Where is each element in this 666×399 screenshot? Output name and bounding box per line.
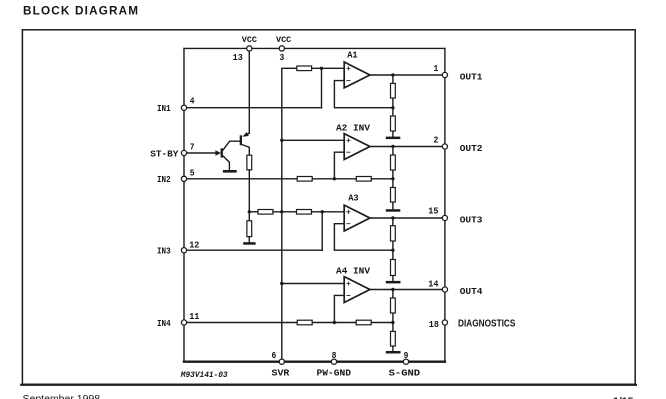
wire A2 + input: [282, 139, 345, 141]
svg-text:12: 12: [189, 241, 199, 251]
pin 4 IN1: [181, 105, 186, 110]
op-amp A4: [344, 277, 370, 303]
wire IN3 from pin 12: [184, 249, 322, 251]
svg-text:VCC: VCC: [242, 36, 257, 45]
resistor A4 divider lower: [391, 331, 396, 346]
capacitor A3 divider ground bar: [386, 281, 401, 284]
wire A1 - feedback: [334, 81, 393, 108]
node mute junction: [248, 210, 251, 213]
node A4 feedback node: [391, 321, 394, 324]
svg-text:S-GND: S-GND: [389, 367, 421, 378]
node bias rail to A2 +: [280, 139, 283, 142]
wire A2 feedback resistor to node: [371, 178, 393, 180]
node A1 + chain junction: [320, 67, 323, 70]
pin 11 IN4: [181, 320, 186, 325]
svg-text:14: 14: [428, 280, 439, 290]
wire A3 output: [370, 217, 445, 219]
resistor A2 divider lower: [391, 188, 396, 203]
resistor mute to ground: [247, 221, 252, 237]
svg-text:7: 7: [190, 143, 195, 153]
svg-text:6: 6: [272, 351, 277, 361]
wire A1 output: [370, 74, 445, 76]
svg-text:9: 9: [404, 351, 409, 361]
resistor IN2 input: [297, 177, 312, 182]
wire A4 feedback resistor to node: [371, 322, 393, 324]
svg-text:OUT4: OUT4: [460, 286, 483, 297]
svg-text:13: 13: [233, 53, 243, 63]
wire A3 feedback divider column: [392, 218, 394, 281]
wire inner box left edge: [183, 48, 185, 361]
node A2 feedback node: [391, 177, 394, 180]
wire IN4 resistor to A4 - node: [312, 322, 356, 324]
svg-text:A2 INV: A2 INV: [336, 122, 370, 133]
svg-text:8: 8: [332, 351, 337, 361]
wire A4 output: [370, 289, 445, 291]
wire IN1 riser: [321, 68, 323, 107]
svg-text:SVR: SVR: [272, 367, 290, 378]
resistor A3 divider upper: [391, 226, 396, 241]
capacitor A1 divider ground bar: [386, 137, 401, 140]
svg-text:M93V141-03: M93V141-03: [180, 371, 228, 380]
wire top rail: [184, 47, 445, 49]
wire inner box right rail: [444, 48, 446, 361]
resistor A2 feedback: [356, 177, 371, 182]
svg-text:15: 15: [428, 206, 438, 216]
resistor A4 divider upper: [391, 298, 396, 313]
svg-text:VCC: VCC: [276, 36, 291, 45]
transistor Q2: [240, 132, 250, 155]
wire IN2 resistor to A2 - node: [312, 178, 356, 180]
svg-text:A1: A1: [347, 49, 358, 60]
node A1 output junction: [391, 73, 394, 76]
wire mute resistor to ground: [248, 237, 250, 243]
op-amp A2: [344, 134, 370, 160]
pin 5 IN2: [181, 176, 186, 181]
op-amp A3: [344, 205, 370, 231]
wire A2 - input riser: [334, 152, 344, 179]
resistor IN4 input: [297, 320, 312, 325]
svg-text:OUT2: OUT2: [460, 143, 483, 154]
pin 6 SVR: [279, 359, 284, 364]
transistor Q1: [215, 141, 240, 170]
wire IN1 from pin 4: [184, 107, 322, 109]
pin 15 OUT3: [442, 215, 447, 220]
wire A2 output: [370, 146, 445, 148]
wire A3 - feedback: [334, 224, 393, 251]
wire ST-BY to Q1 base: [184, 152, 216, 154]
wire A4 - input riser: [334, 295, 344, 322]
pin 8 PW-GND: [331, 359, 336, 364]
pin 2 OUT2: [442, 144, 447, 149]
svg-text:3: 3: [280, 53, 285, 63]
svg-text:1: 1: [434, 64, 439, 74]
wire chain middle: [273, 211, 297, 213]
resistor A1 input: [297, 66, 312, 71]
wire A4 + input: [282, 283, 345, 285]
op-amp A1: [344, 62, 370, 88]
svg-text:IN3: IN3: [157, 246, 171, 257]
svg-text:11: 11: [189, 312, 200, 322]
svg-text:5: 5: [190, 169, 195, 179]
svg-text:IN1: IN1: [157, 103, 171, 114]
node bias rail chain junction: [280, 210, 283, 213]
wire chain to A3 + input: [312, 211, 345, 213]
wire Q2 resistor to mute node: [248, 170, 250, 221]
capacitor A4 divider ground bar: [386, 351, 401, 354]
wire IN4 from pin 11: [184, 322, 297, 324]
svg-text:ST-BY: ST-BY: [150, 148, 178, 159]
ground Q1 emitter: [223, 170, 237, 173]
svg-text:A4 INV: A4 INV: [336, 266, 370, 277]
resistor chain right: [297, 210, 312, 215]
resistor A3 divider lower: [391, 260, 396, 276]
svg-text:IN4: IN4: [157, 318, 171, 329]
node A3 + chain junction: [321, 210, 324, 213]
node bias rail to A4 +: [280, 282, 283, 285]
pin 14 OUT4: [442, 287, 447, 292]
resistor Q2 collector: [247, 155, 252, 170]
pin 18 DIAGNOSTICS: [442, 320, 447, 325]
node A4 output junction: [391, 288, 394, 291]
node A2 - input junction: [333, 177, 336, 180]
wire bottom rail: [184, 361, 445, 363]
node A3 feedback node: [391, 249, 394, 252]
svg-text:OUT1: OUT1: [460, 71, 483, 82]
wire VCC pin13 column down to Q2 emitter: [248, 48, 250, 133]
pin 7 ST-BY: [181, 150, 186, 155]
wire A2 feedback divider column: [392, 147, 394, 210]
node A3 output junction: [391, 216, 394, 219]
pin 1 OUT1: [442, 72, 447, 77]
svg-text:OUT3: OUT3: [460, 214, 483, 225]
resistor A1 divider upper: [391, 83, 396, 98]
wire IN2 from pin 5: [184, 178, 297, 180]
svg-text:A3: A3: [348, 192, 359, 203]
resistor chain left: [258, 210, 273, 215]
node A1 feedback node: [391, 106, 394, 109]
wire IN3 riser: [321, 212, 323, 250]
wire A3 + input chain left: [249, 211, 258, 213]
pin 3 VCC: [279, 46, 284, 51]
resistor A2 divider upper: [391, 155, 396, 170]
svg-text:4: 4: [190, 97, 195, 107]
pin 9 S-GND: [403, 359, 408, 364]
svg-text:1/15: 1/15: [613, 396, 634, 399]
node A2 output junction: [391, 145, 394, 148]
svg-text:PW-GND: PW-GND: [317, 367, 352, 378]
svg-text:DIAGNOSTICS: DIAGNOSTICS: [458, 319, 516, 330]
pin 13 VCC: [247, 46, 252, 51]
svg-text:2: 2: [434, 135, 439, 145]
ground mute network: [243, 242, 255, 245]
svg-text:IN2: IN2: [157, 174, 171, 185]
node A4 - input junction: [333, 321, 336, 324]
wire SVR bias rail: [282, 68, 297, 361]
wire A4 feedback divider column: [392, 290, 394, 352]
pin 12 IN3: [181, 248, 186, 253]
resistor A1 divider lower: [391, 116, 396, 131]
capacitor A2 divider ground bar: [386, 209, 401, 212]
wire A1 feedback divider column: [392, 75, 394, 137]
svg-text:18: 18: [429, 320, 439, 330]
resistor A4 feedback: [356, 320, 371, 325]
wire A1 + input chain: [312, 67, 345, 69]
svg-text:September 1998: September 1998: [23, 393, 101, 399]
svg-text:BLOCK DIAGRAM: BLOCK DIAGRAM: [23, 5, 139, 18]
